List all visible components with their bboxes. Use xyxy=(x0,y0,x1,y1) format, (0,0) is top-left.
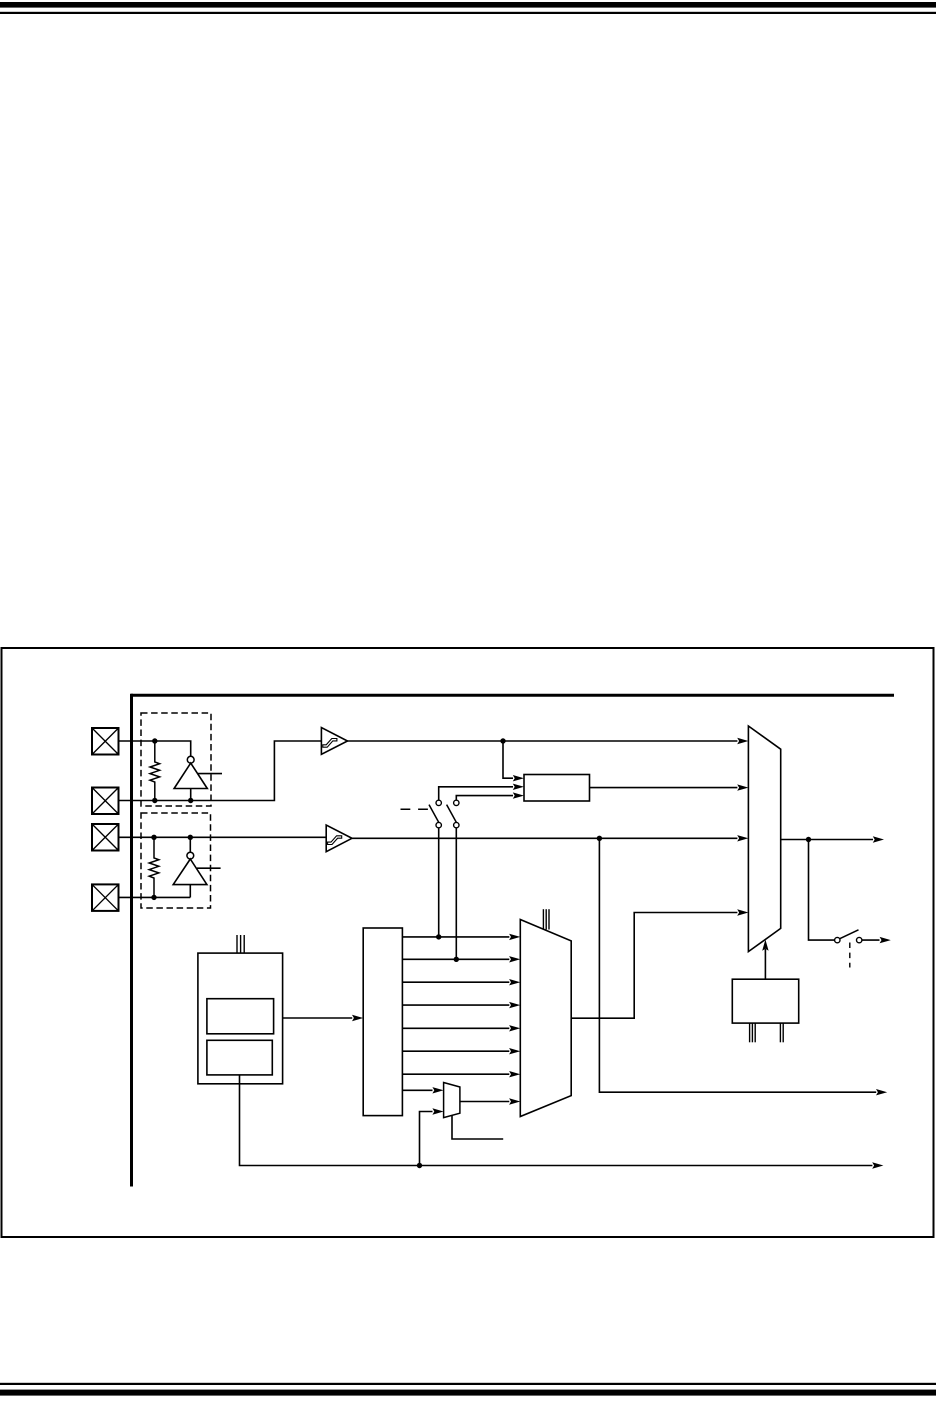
arrow fXCIN into mux xyxy=(737,835,748,841)
wire f64 xyxy=(402,1073,509,1075)
junction system clock branch xyxy=(806,837,811,842)
arrow f8 into mux xyxy=(509,1002,520,1008)
switch S1 xyxy=(429,800,441,828)
divider chain block xyxy=(363,928,402,1116)
inverter amp 1 bubble xyxy=(187,756,194,763)
arrow into PLL input 1 xyxy=(513,775,524,781)
arrow fXIN into mux xyxy=(737,738,748,744)
junction S2-f2 xyxy=(454,957,459,962)
inverter 1 enable stub xyxy=(198,773,222,775)
wire XIN xyxy=(118,741,191,756)
junction XCOUT-Rf2 xyxy=(151,895,156,900)
wire fXCIN down to peripheral output xyxy=(599,838,876,1092)
small mux select stub xyxy=(452,1115,503,1139)
arrow into divider xyxy=(352,1015,363,1021)
footer thin rule xyxy=(0,1383,936,1385)
wire f32 xyxy=(402,1050,509,1052)
junction fXIN branch xyxy=(500,738,505,743)
wire f16 xyxy=(402,1027,509,1029)
arrow f4 into mux xyxy=(509,979,520,985)
arrow into PLL input 3 xyxy=(513,792,524,798)
wire f8 xyxy=(402,1004,509,1006)
inverter amp 2 xyxy=(173,859,207,897)
junction XIN-Rf1 xyxy=(152,738,157,743)
switch S3 xyxy=(835,930,862,968)
junction XCIN-inverter2 xyxy=(188,835,193,840)
wire switch S1 to PLL input 2 xyxy=(439,787,513,800)
arrow control into mux M0 xyxy=(762,940,768,951)
arrow f32 into mux xyxy=(509,1048,520,1054)
arrow bottom bus output xyxy=(872,1162,883,1168)
small mux M2 xyxy=(444,1083,460,1118)
pin pad XCOUT xyxy=(92,884,119,911)
dashed enclosure sub oscillator xyxy=(141,813,211,908)
wire switch S2 to PLL input 3 xyxy=(456,796,513,801)
inverter amp 2 bubble xyxy=(187,852,194,859)
wire S2 down to f2 xyxy=(455,828,457,960)
pin pad XCIN xyxy=(92,824,119,851)
arrow PLL output into mux xyxy=(737,784,748,790)
chip boundary top line xyxy=(131,694,894,697)
figure frame xyxy=(2,648,934,1237)
pin pad XIN xyxy=(92,728,119,755)
header thin rule xyxy=(0,12,936,14)
wire f2 xyxy=(402,958,509,960)
wire S1 down to f1 xyxy=(438,828,440,937)
wire PLL output xyxy=(590,787,738,789)
buffer U1 main clock xyxy=(321,728,347,755)
junction bottom bus to small mux xyxy=(417,1163,422,1168)
arrow f1 into mux xyxy=(509,934,520,940)
dashed enclosure main oscillator xyxy=(141,713,211,806)
arrow f16 into mux xyxy=(509,1025,520,1031)
wire into small mux input 2 xyxy=(420,1112,433,1166)
arrow into small mux input 1 xyxy=(432,1087,443,1093)
wire fXIN to PLL input xyxy=(503,741,513,778)
wire system clock output xyxy=(781,839,873,841)
mux M1 select bus ticks xyxy=(543,909,549,929)
footer thick rule xyxy=(0,1390,936,1396)
arrow M1 output into system mux xyxy=(737,909,748,915)
wire f4 xyxy=(402,981,509,983)
main divider select mux M1 xyxy=(520,920,571,1117)
resistor Rf2 xyxy=(149,837,159,897)
wire register to divider xyxy=(283,1017,353,1019)
arrow system clock output xyxy=(873,836,884,842)
switch S2 xyxy=(447,800,459,828)
register block bus ticks xyxy=(237,935,244,953)
register sub-box 2 xyxy=(207,1040,272,1075)
system clock select mux M0 xyxy=(748,726,780,952)
clock control register block xyxy=(198,953,283,1084)
wire small mux output xyxy=(460,1101,509,1103)
inverter 2 enable stub xyxy=(197,867,221,869)
wire M1 output to system mux xyxy=(571,913,737,1019)
control register bus ticks 2 xyxy=(780,1023,783,1042)
arrow into PLL input 2 xyxy=(513,784,524,790)
wire switch S3 output xyxy=(862,939,880,941)
header thick rule xyxy=(0,2,936,8)
arrow f2 into mux xyxy=(509,956,520,962)
junction XOUT-Rf1 xyxy=(152,798,157,803)
arrow into small mux input 2 xyxy=(432,1108,443,1114)
control register bus ticks 3 xyxy=(750,1023,756,1042)
chip boundary left line xyxy=(130,694,133,1187)
wire f1 xyxy=(402,936,509,938)
wire XCOUT xyxy=(118,896,190,898)
pin pad XOUT xyxy=(92,788,119,815)
wire register block to bottom bus xyxy=(240,1075,873,1166)
wire divider to small mux xyxy=(402,1089,432,1091)
wire XOUT xyxy=(118,741,321,801)
arrow peripheral clock output xyxy=(876,1089,887,1095)
wire fXIN xyxy=(348,740,738,742)
register sub-box 1 xyxy=(207,999,274,1034)
junction S1-f1 xyxy=(436,934,441,939)
switch linkage dashes xyxy=(401,808,436,810)
inverter amp 1 xyxy=(174,763,207,800)
wire fXCIN xyxy=(352,837,737,839)
resistor Rf1 xyxy=(150,741,160,801)
wire control register to mux M0 xyxy=(764,949,766,979)
arrow switch S3 output xyxy=(880,937,891,943)
inverter amp 2 input drop xyxy=(189,837,191,852)
system clock control register box xyxy=(732,979,798,1023)
PLL frequency synthesizer box xyxy=(524,775,590,802)
junction XOUT-inverter1 xyxy=(188,798,193,803)
arrow f64 into mux xyxy=(509,1071,520,1077)
arrow small mux output into mux xyxy=(509,1098,520,1104)
junction fXCIN branch xyxy=(597,836,602,841)
buffer U2 sub clock xyxy=(326,825,352,852)
junction XCIN-Rf2 xyxy=(151,835,156,840)
wire XCIN xyxy=(118,836,326,838)
wire branch down to switch S3 xyxy=(809,840,835,941)
